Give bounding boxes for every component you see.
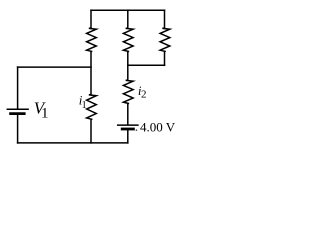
battery V1 long plate bbox=[7, 108, 28, 110]
wire: right column from R3 down to connector bbox=[164, 51, 166, 65]
wire: from battery V1 down to bottom bus bbox=[17, 115, 19, 143]
wire: middle column lead from top bus to resistor R2 bbox=[127, 10, 129, 28]
wire: top bus bbox=[91, 9, 165, 11]
resistor R2 (top middle) bbox=[123, 28, 133, 51]
wire: segment from R1 down through node to resistor i1 bbox=[90, 51, 92, 94]
svg-text:1: 1 bbox=[41, 106, 49, 122]
battery V1 short plate bbox=[11, 112, 25, 115]
svg-text:4.00 V: 4.00 V bbox=[140, 119, 176, 134]
resistor R1 (top left of resistor bank) bbox=[87, 28, 97, 51]
stray dot left of 4.00 V bbox=[136, 129, 138, 131]
battery B2 (4.00 V) long plate bbox=[118, 124, 138, 126]
wire: left-top column lead from top bus to resistor R1 bbox=[90, 10, 92, 28]
resistor R3 (top right) bbox=[160, 28, 170, 51]
wire: from resistor i1 down to bottom bus bbox=[90, 119, 92, 143]
wire: left loop top from battery V1 branch to middle node bbox=[18, 66, 91, 68]
resistor R4 carrying current i1 bbox=[87, 95, 97, 120]
wire: connector between middle and right columns bbox=[128, 64, 165, 66]
svg-text:2: 2 bbox=[141, 88, 147, 100]
circuit schematic figure bbox=[0, 0, 182, 158]
wire: from bottom bus up to 4.00V battery bbox=[127, 130, 129, 143]
resistor R5 carrying current i2 bbox=[123, 80, 133, 103]
wire: from resistor i2 down to 4.00V battery bbox=[127, 103, 129, 124]
wire: right column lead from top bus to resistor R3 bbox=[164, 10, 166, 28]
wire: bottom bus bbox=[18, 142, 128, 144]
wire: middle column from R2 through node to resistor i2 bbox=[127, 51, 129, 80]
wire: left branch down to battery V1 bbox=[17, 67, 19, 108]
svg-text:1: 1 bbox=[82, 100, 87, 111]
battery B2 (4.00 V) short plate bbox=[122, 128, 133, 131]
